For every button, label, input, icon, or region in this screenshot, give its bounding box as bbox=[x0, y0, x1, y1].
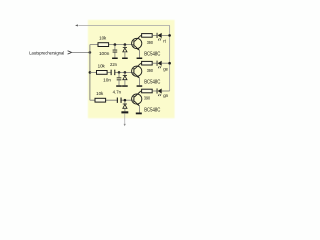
wire emitter stage1 bbox=[138, 50, 140, 57]
svg-text:BC548C: BC548C bbox=[144, 52, 161, 58]
capacitor 10n shunt stage2 bbox=[118, 72, 120, 77]
svg-text:BC548C: BC548C bbox=[144, 80, 161, 86]
wire collector stage2 bbox=[140, 62, 143, 64]
ground cap stage1 bbox=[112, 58, 118, 60]
diode stage1 bbox=[124, 45, 126, 48]
node stage3 diode junction bbox=[124, 99, 127, 102]
wire to LED stage2 bbox=[152, 62, 156, 64]
wire collector stage3 bbox=[140, 90, 143, 92]
wire stage2 base row bbox=[90, 71, 134, 73]
ground diode stage1 bbox=[122, 58, 128, 60]
wire right supply rail bbox=[169, 25, 171, 91]
resistor 10k stage3 bbox=[95, 98, 106, 102]
LED stage3 (gn) bbox=[156, 88, 159, 93]
ground arrow bbox=[124, 124, 126, 126]
svg-text:22n: 22n bbox=[110, 62, 117, 67]
input arrow bbox=[68, 51, 72, 54]
wire emitter stage2 bbox=[138, 78, 140, 85]
wire top supply rail bbox=[78, 24, 169, 26]
ground cap stage2 bbox=[116, 85, 122, 87]
ground diode stage2 bbox=[122, 85, 128, 87]
ground diode stage3 (bar) bbox=[121, 111, 128, 113]
svg-text:gn: gn bbox=[163, 93, 168, 98]
svg-text:10k: 10k bbox=[96, 91, 104, 96]
svg-text:100n: 100n bbox=[99, 51, 110, 56]
supply arrow + bbox=[75, 24, 78, 26]
node input junction bbox=[89, 51, 92, 54]
resistor 390 stage2 bbox=[142, 61, 153, 65]
node stage2 diode junction bbox=[124, 71, 127, 74]
diode stage3 bbox=[124, 101, 126, 104]
node stage2 tap bbox=[89, 71, 92, 74]
capacitor 100n shunt stage1 bbox=[114, 45, 116, 50]
wire LED to rail stage3 bbox=[162, 90, 170, 92]
capacitor 4.7n series stage3 bbox=[117, 98, 118, 103]
resistor 390 stage1 bbox=[142, 34, 153, 38]
wire to LED stage3 bbox=[152, 90, 156, 92]
node stage2 cap junction bbox=[118, 71, 121, 74]
node stage1 diode junction bbox=[124, 43, 127, 46]
node rail stage1 bbox=[168, 34, 171, 37]
transistor BC548C stage2 (T2) bbox=[132, 66, 142, 76]
wire stage1 base row bbox=[90, 44, 134, 46]
ground emitter stage1 bbox=[137, 58, 143, 60]
resistor 390 stage3 bbox=[142, 89, 153, 93]
transistor BC548C stage3 (T3) bbox=[132, 94, 142, 104]
diode stage2 bbox=[124, 72, 126, 75]
wire to LED stage1 bbox=[152, 34, 156, 36]
svg-text:BC548C: BC548C bbox=[144, 107, 161, 113]
ground emitter stage2 bbox=[137, 85, 143, 87]
svg-text:ge: ge bbox=[163, 66, 168, 71]
ground emitter stage3 bbox=[136, 113, 142, 115]
resistor 10k stage2 bbox=[97, 71, 108, 75]
svg-text:390: 390 bbox=[144, 96, 151, 101]
svg-text:10k: 10k bbox=[98, 63, 106, 68]
wire input bbox=[72, 51, 90, 53]
resistor 10k stage1 bbox=[98, 43, 109, 47]
wire collector stage1 bbox=[140, 34, 143, 36]
svg-text:10k: 10k bbox=[99, 36, 107, 41]
wire ground stem bbox=[124, 113, 126, 124]
capacitor 22n series stage2 bbox=[111, 70, 112, 75]
LED stage2 (ge) bbox=[156, 61, 159, 66]
wire stage3 base row bbox=[90, 99, 134, 101]
wire emitter stage3 bbox=[138, 106, 140, 113]
wire left rail bbox=[89, 45, 91, 101]
transistor BC548C stage1 (T1) bbox=[132, 38, 142, 48]
LED stage1 (rt) bbox=[156, 33, 159, 38]
svg-text:390: 390 bbox=[147, 68, 154, 73]
wire LED to rail stage2 bbox=[162, 62, 170, 64]
svg-text:4.7n: 4.7n bbox=[113, 90, 122, 95]
node stage1 cap junction bbox=[114, 43, 117, 46]
svg-text:390: 390 bbox=[147, 40, 154, 45]
svg-text:Lautsprechersignal: Lautsprechersignal bbox=[29, 50, 64, 56]
svg-text:10n: 10n bbox=[103, 77, 111, 82]
wire LED to rail stage1 bbox=[162, 34, 170, 36]
node rail stage2 bbox=[168, 62, 171, 65]
